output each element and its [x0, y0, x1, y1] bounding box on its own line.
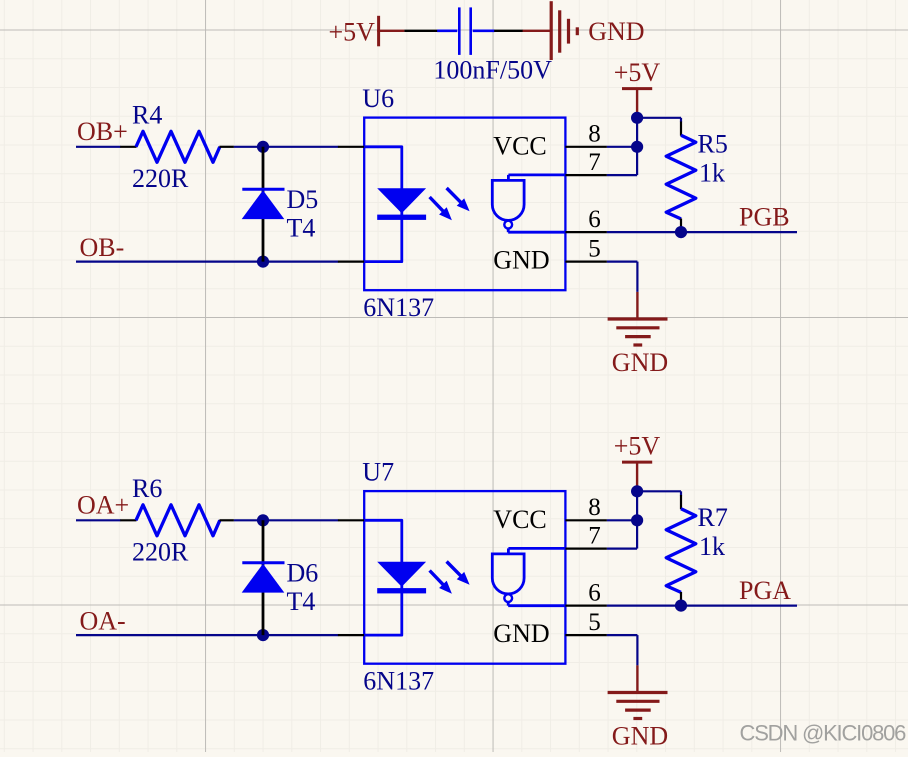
svg-text:8: 8 [588, 121, 601, 148]
svg-text:6: 6 [588, 579, 601, 606]
svg-text:VCC: VCC [493, 505, 546, 534]
power port +5V (U6) [614, 58, 661, 118]
svg-text:R6: R6 [132, 474, 162, 503]
svg-text:D6: D6 [287, 558, 319, 587]
svg-text:T4: T4 [287, 214, 316, 243]
svg-text:220R: 220R [132, 164, 189, 193]
svg-text:+5V: +5V [614, 58, 661, 87]
svg-text:GND: GND [612, 348, 668, 377]
svg-text:GND: GND [588, 17, 644, 46]
svg-text:CSDN @KICI0806: CSDN @KICI0806 [740, 721, 907, 746]
wire +5V rail (U7) [607, 491, 681, 548]
resistor R6 220R [120, 474, 234, 567]
svg-text:1k: 1k [699, 159, 725, 188]
svg-text:+5V: +5V [329, 17, 376, 46]
power ground GND (U7) [608, 665, 669, 750]
junction node OA+/D6 [257, 514, 269, 526]
svg-text:GND: GND [493, 245, 549, 274]
junction node R7/pin6 [675, 600, 687, 612]
svg-text:D5: D5 [287, 185, 319, 214]
power port +5V (decoupling) [329, 16, 405, 47]
svg-text:OB+: OB+ [77, 117, 128, 146]
svg-text:U7: U7 [362, 457, 394, 486]
wire R4 to U6 [234, 146, 338, 148]
svg-text:100nF/50V: 100nF/50V [433, 55, 552, 84]
svg-text:6N137: 6N137 [363, 666, 434, 695]
optocoupler U7 6N137 [338, 457, 607, 695]
svg-text:+5V: +5V [614, 432, 661, 461]
wire OB- [76, 261, 338, 263]
svg-text:6N137: 6N137 [363, 293, 434, 322]
svg-text:5: 5 [588, 609, 601, 636]
svg-text:7: 7 [588, 149, 601, 176]
svg-text:R5: R5 [698, 130, 728, 159]
resistor R7 1k [666, 495, 728, 606]
wire pin6 to PGB [607, 231, 797, 233]
svg-text:VCC: VCC [493, 132, 546, 161]
diode D5 T4 [242, 147, 319, 262]
resistor R5 1k [666, 122, 728, 233]
wire OB+ [76, 146, 121, 148]
svg-text:PGA: PGA [739, 576, 791, 605]
junction node +5V/U6 pin8 [631, 112, 643, 124]
svg-text:6: 6 [588, 206, 601, 233]
diode D6 T4 [242, 520, 319, 635]
wire OA+ [76, 519, 121, 521]
wire OA- [76, 634, 338, 636]
junction node +5V/U7 pin8 [631, 485, 643, 497]
wire C1 to GND port [494, 30, 523, 32]
wire +5V to C1 [404, 30, 437, 32]
junction node OA-/D6 [257, 629, 269, 641]
capacitor C1 100nF/50V [433, 7, 552, 84]
svg-text:GND: GND [612, 721, 668, 750]
svg-text:OA-: OA- [80, 607, 126, 636]
svg-text:7: 7 [588, 522, 601, 549]
svg-text:R4: R4 [132, 100, 162, 129]
power ground GND (decoupling) [523, 1, 645, 60]
svg-text:T4: T4 [287, 587, 316, 616]
svg-text:U6: U6 [362, 84, 394, 113]
wire +5V rail (U6) [607, 118, 681, 175]
svg-text:220R: 220R [132, 538, 189, 567]
svg-text:GND: GND [493, 619, 549, 648]
svg-text:1k: 1k [699, 532, 725, 561]
power port +5V (U7) [614, 432, 661, 492]
wire pin6 to PGA [607, 604, 797, 606]
svg-text:OA+: OA+ [77, 491, 129, 520]
wire pin5 to GND (U7) [607, 635, 638, 665]
svg-text:PGB: PGB [739, 203, 790, 232]
wire pin5 to GND (U6) [607, 262, 638, 292]
svg-text:5: 5 [588, 235, 601, 262]
power ground GND (U6) [608, 292, 669, 377]
junction node R5/pin6 [675, 226, 687, 238]
svg-text:R7: R7 [698, 503, 728, 532]
junction node OB+/D5 [257, 141, 269, 153]
wire R6 to U7 [234, 519, 338, 521]
svg-text:OB-: OB- [80, 233, 125, 262]
svg-text:8: 8 [588, 494, 601, 521]
optocoupler U6 6N137 [338, 84, 607, 322]
junction node OB-/D5 [257, 256, 269, 268]
resistor R4 220R [120, 100, 234, 193]
